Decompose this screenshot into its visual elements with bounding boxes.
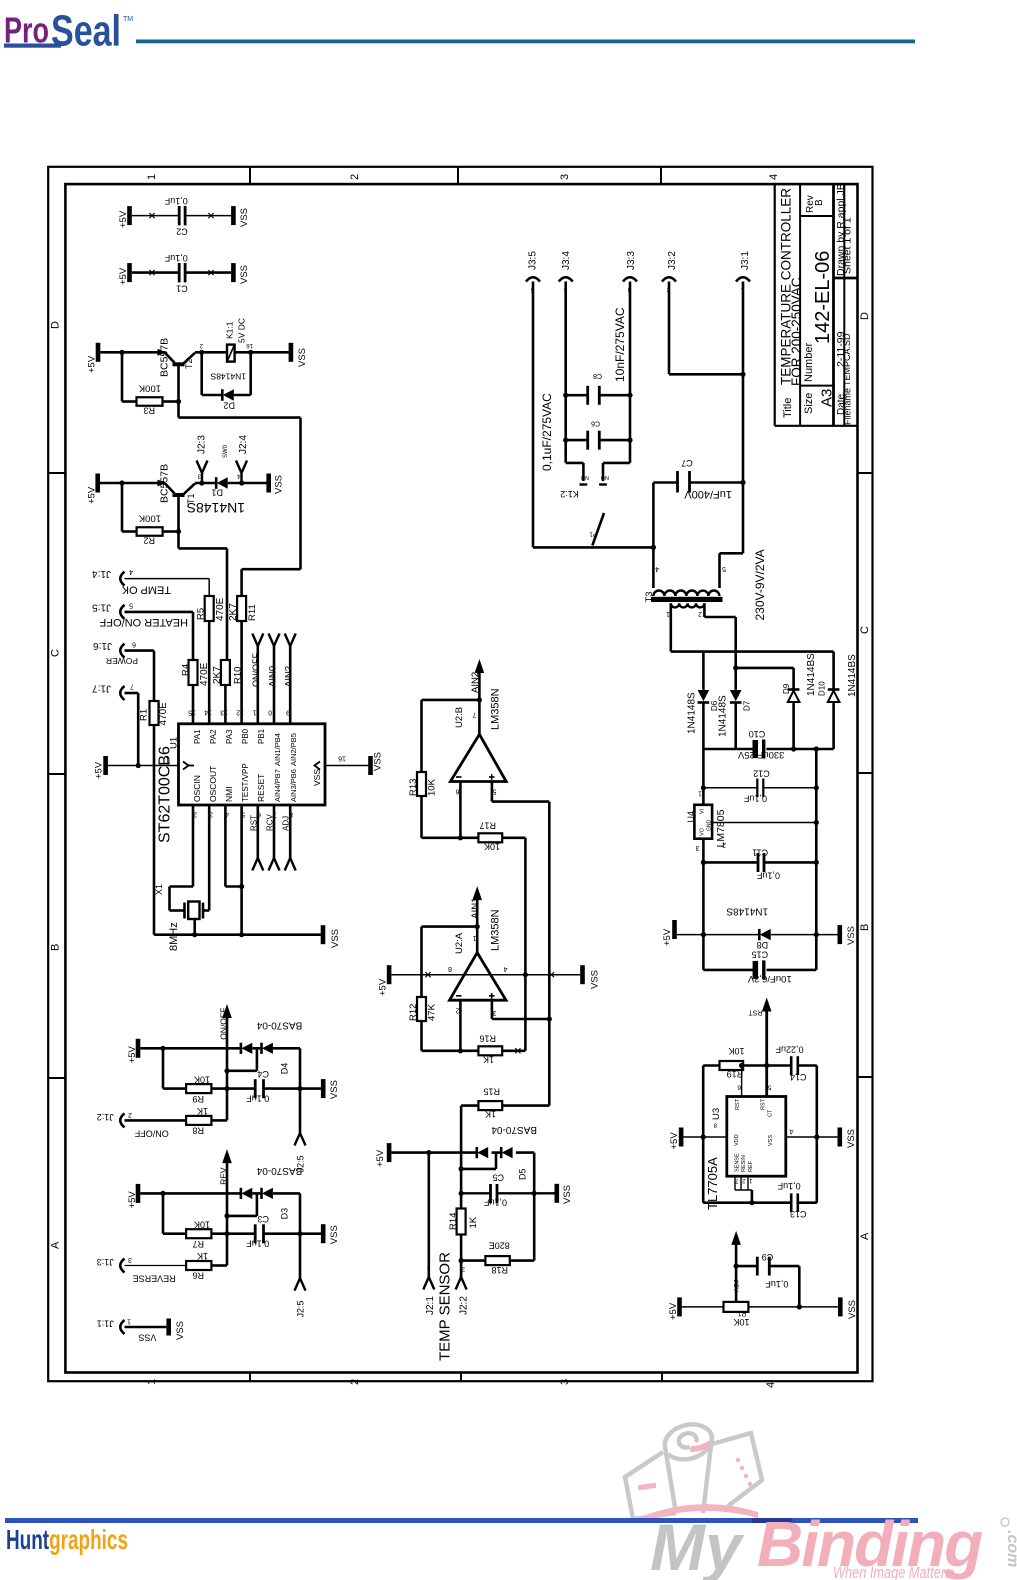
drawing frame outer border — [48, 167, 872, 1381]
wire C2 row — [132, 215, 231, 217]
svg-text:R8: R8 — [192, 1125, 204, 1135]
capacitor C6 10nF/275VAC — [588, 420, 600, 450]
svg-text:VSS: VSS — [329, 1080, 340, 1099]
svg-text:2: 2 — [128, 1111, 132, 1118]
svg-text:+5V: +5V — [87, 355, 98, 373]
wire inverting ground vertical — [524, 838, 527, 1051]
svg-text:HEATER ON/OFF: HEATER ON/OFF — [99, 616, 188, 628]
capacitor C8 0.1uF/275VAC — [588, 372, 602, 405]
wire secondary left to bridge — [669, 603, 672, 651]
net arrow ON/OFF — [219, 1004, 232, 1120]
svg-text:C4: C4 — [257, 1069, 269, 1079]
svg-text:7: 7 — [130, 683, 134, 690]
wire C1 row — [132, 271, 231, 274]
watermark MyBinding graphic — [625, 1424, 762, 1522]
wire U2:B inverting input pin 6 — [456, 782, 461, 838]
capacitor C3 0.1uF — [246, 1214, 270, 1249]
svg-text:1: 1 — [473, 934, 477, 941]
svg-text:PA1: PA1 — [193, 729, 202, 744]
svg-text:REF: REF — [748, 1160, 754, 1172]
ground VSS symbol at MCU rail — [321, 925, 341, 948]
svg-text:J1:2: J1:2 — [97, 1112, 114, 1122]
power +5V symbol ON/OFF block — [127, 1039, 140, 1064]
potentiometer P1 10K — [724, 1302, 750, 1327]
svg-text:10uF/6,3V: 10uF/6,3V — [747, 973, 791, 984]
diode D10 1N4148S — [818, 652, 859, 749]
wire VSS rail under MCU — [154, 933, 321, 936]
wire R12 to inverting node — [420, 1021, 423, 1051]
ground VSS symbol at T1 row — [266, 474, 284, 495]
svg-text:Size: Size — [803, 393, 815, 414]
capacitor C5 0.1uF — [483, 1173, 507, 1208]
zone letter D left — [50, 321, 62, 329]
svg-text:B: B — [859, 924, 871, 931]
svg-text:D: D — [859, 312, 871, 320]
title block Date label — [836, 393, 847, 415]
svg-text:RST: RST — [250, 815, 259, 831]
svg-text:820E: 820E — [489, 1241, 510, 1251]
connector J3:4 — [559, 251, 573, 396]
pin name NMI — [224, 786, 234, 802]
svg-text:J1:3: J1:3 — [97, 1257, 114, 1267]
svg-text:P1: P1 — [589, 531, 597, 538]
svg-text:VSS: VSS — [373, 752, 384, 771]
svg-text:470E: 470E — [158, 702, 169, 726]
resistor R17 10K — [478, 821, 502, 852]
svg-text:J3:4: J3:4 — [561, 251, 572, 270]
wire R8 to net — [211, 1119, 227, 1122]
wire pin 6 RST arrow — [250, 805, 264, 871]
svg-text:REVERSE: REVERSE — [133, 1274, 176, 1284]
net arrow REV — [219, 1149, 232, 1265]
resistor R16 1K — [478, 1034, 502, 1065]
svg-text:NO: NO — [600, 474, 609, 480]
wire pin 5 TEST/VPP to VSS rail — [239, 805, 244, 937]
resistor R19 10K — [720, 1046, 745, 1079]
svg-text:D1: D1 — [211, 488, 223, 498]
title block number value 142-EL-06 — [812, 251, 834, 344]
svg-text:BAS70-04: BAS70-04 — [491, 1124, 537, 1135]
resistor R3 100K — [137, 383, 163, 416]
title block Size label — [803, 393, 815, 414]
svg-text:4: 4 — [563, 286, 567, 292]
label SW0 — [223, 444, 229, 458]
label TEMP SENSOR — [437, 1252, 454, 1361]
capacitor C10 330uF/25V — [737, 729, 784, 760]
capacitor C12 0.1uF — [743, 769, 769, 804]
pin 16 VSS name inside — [312, 762, 322, 787]
wire D3 centre tap — [224, 1193, 257, 1218]
wire R13 to inverting node — [420, 796, 423, 838]
resistor R5 470E — [196, 596, 227, 621]
wire R19 to RST node — [743, 1063, 791, 1068]
svg-text:.com: .com — [1004, 1530, 1017, 1567]
svg-text:VSS: VSS — [846, 1129, 857, 1148]
title block title text line 1 — [779, 188, 794, 385]
wire U2:A output to AIN1 arrow — [470, 886, 482, 953]
diode pair D3 BAS70-04 — [241, 1165, 302, 1220]
svg-text:BC557B: BC557B — [159, 464, 171, 503]
svg-text:VSS: VSS — [329, 1225, 340, 1244]
connector J1:7 — [92, 683, 139, 701]
svg-text:AIN1/PB4: AIN1/PB4 — [273, 733, 282, 766]
svg-text:C5: C5 — [492, 1173, 504, 1183]
svg-text:1N4148S: 1N4148S — [687, 692, 698, 734]
diode D2 1N4148S flyback — [210, 372, 246, 411]
wire +5V branch to R9 — [163, 1048, 186, 1088]
ground VSS symbol at regulator — [838, 925, 858, 945]
svg-text:C13: C13 — [790, 1209, 807, 1219]
svg-text:AIN1: AIN1 — [470, 898, 481, 919]
svg-text:+5V: +5V — [94, 761, 105, 779]
ground VSS symbol for C2 — [231, 206, 250, 227]
connector J3:1 — [736, 251, 751, 483]
resistor R8 1K — [186, 1106, 211, 1135]
svg-text:4: 4 — [655, 565, 659, 572]
pin name PA1 — [193, 729, 202, 744]
svg-text:LM358N: LM358N — [490, 688, 502, 730]
wire U2:A feedback to R12 — [422, 927, 478, 997]
zone letter D right — [859, 312, 871, 320]
svg-text:FOR 200-250VAC: FOR 200-250VAC — [789, 277, 804, 386]
title block grid lines — [775, 184, 858, 426]
connector J1:2 ON/OFF — [97, 1111, 186, 1139]
zone number 3 top — [559, 174, 571, 180]
svg-text:C1: C1 — [176, 283, 188, 293]
wire clamp right branch to J2:5 — [295, 1193, 306, 1317]
svg-text:1N4148S: 1N4148S — [210, 372, 246, 382]
zone letter B left — [50, 944, 62, 951]
svg-text:AIN4/PB7: AIN4/PB7 — [273, 769, 282, 802]
watermark Binding text — [757, 1508, 1017, 1580]
svg-text:J1:6: J1:6 — [93, 640, 112, 651]
wire R7 row to cap and VSS — [211, 1231, 321, 1236]
svg-text:A: A — [50, 1241, 62, 1249]
capacitor C2 — [164, 196, 188, 236]
svg-text:K1:2: K1:2 — [560, 489, 579, 499]
svg-text:VSS: VSS — [330, 929, 341, 948]
wire R14 to J2:2 node — [459, 1235, 464, 1278]
wire U3 bottom pins to reference node — [735, 1176, 755, 1205]
svg-text:C6: C6 — [591, 420, 600, 427]
power +5V symbol at T1 — [87, 474, 101, 505]
svg-text:C15: C15 — [752, 950, 769, 960]
wire T1 collector row — [195, 480, 244, 485]
pin name PA3 — [225, 729, 234, 744]
wire J1:7 to VDD node — [136, 693, 141, 768]
svg-text:BC557B: BC557B — [159, 338, 171, 377]
pin end tick R16 row — [515, 1048, 520, 1053]
svg-text:SW0: SW0 — [223, 444, 229, 458]
wire secondary right to bridge — [704, 603, 735, 668]
wire U2:A inverting input pin 2 — [456, 1000, 461, 1051]
op-amp U2:B LM358N — [450, 688, 506, 781]
wire pin 2 OSCIN to resonator — [170, 805, 194, 911]
wire U2:B non-inverting input pin 5 — [492, 782, 549, 802]
svg-text:6: 6 — [456, 788, 460, 795]
wire C9 row — [736, 1266, 799, 1307]
capacitor C4 0.1uF — [246, 1069, 270, 1104]
wire D4 centre tap — [224, 1048, 257, 1073]
svg-text:J2:5: J2:5 — [296, 1300, 306, 1317]
capacitor C15 10uF/6.3V — [747, 950, 791, 984]
svg-text:PB0: PB0 — [241, 728, 250, 744]
resistor R14 1K — [448, 1209, 479, 1235]
svg-text:D5: D5 — [518, 1168, 528, 1180]
wire transformer primary feed — [653, 483, 743, 589]
pin name PA2 — [209, 729, 218, 744]
title block Filename label — [843, 388, 853, 425]
wire VSS rail right — [815, 749, 818, 970]
svg-text:BAS70-04: BAS70-04 — [256, 1165, 302, 1176]
svg-text:6: 6 — [132, 640, 136, 647]
svg-text:R10: R10 — [233, 667, 244, 684]
svg-text:1: 1 — [127, 1318, 131, 1325]
wire C5 row — [461, 1192, 554, 1194]
svg-text:+5V: +5V — [127, 1045, 138, 1063]
svg-text:47K: 47K — [427, 1003, 438, 1021]
pin name TEST/VPP — [241, 763, 250, 802]
svg-text:J1:7: J1:7 — [92, 683, 111, 694]
title block date value — [835, 331, 847, 367]
wire J1:6 to R1 — [153, 651, 156, 701]
svg-text:ON/OFF: ON/OFF — [251, 653, 261, 687]
svg-text:470E: 470E — [199, 662, 210, 686]
ground VSS symbol at U3 — [838, 1128, 858, 1149]
wire relay to VSS — [235, 351, 289, 354]
wire non-inverting signal vertical — [547, 802, 552, 1106]
svg-text:3: 3 — [493, 1009, 497, 1016]
diode D9 1N4148S — [782, 653, 817, 752]
pin end ticks op-amp supply row — [425, 972, 554, 977]
power +5V symbol at T2 — [87, 343, 101, 373]
connector J2:4 — [236, 435, 249, 483]
title block size value A3 — [819, 389, 836, 407]
svg-text:U2:B: U2:B — [454, 707, 465, 728]
wire R2 to T1 base — [163, 529, 181, 534]
svg-text:16: 16 — [246, 342, 253, 348]
connector J1:6 POWER — [93, 640, 154, 666]
svg-text:ON/OFF: ON/OFF — [219, 1008, 229, 1040]
svg-text:NO: NO — [580, 474, 589, 480]
svg-text:C12: C12 — [753, 769, 770, 779]
svg-text:1K: 1K — [485, 1109, 496, 1119]
wire U2:A non-inverting input pin 3 — [492, 1000, 549, 1019]
IC U1 ST62T00CB6 body — [157, 724, 326, 843]
power +5V symbol at VDD pin 1 — [94, 756, 108, 779]
wire R3 to T2 base — [163, 399, 182, 404]
svg-text:R4: R4 — [180, 664, 191, 676]
zone letter B right — [859, 924, 871, 931]
svg-text:CT: CT — [768, 1109, 774, 1117]
svg-text:J3:5: J3:5 — [528, 251, 539, 270]
wire bridge bottom rail — [703, 746, 833, 751]
wire flyback loop left — [199, 350, 222, 395]
svg-text:J3:2: J3:2 — [667, 251, 678, 270]
relay contact K1:2 with P1 — [560, 440, 630, 545]
svg-text:J2:1: J2:1 — [425, 1296, 436, 1315]
wire flyback loop right — [234, 350, 253, 395]
svg-text:C9: C9 — [762, 1252, 774, 1262]
svg-text:Seal: Seal — [51, 7, 121, 56]
watermark tagline — [833, 1563, 955, 1580]
svg-text:1: 1 — [740, 286, 744, 292]
resistor R10 2K7 — [212, 660, 244, 685]
ground VSS symbol at P1 — [838, 1297, 858, 1319]
wire R3 branch down — [119, 350, 136, 402]
title block Sheet 1 of 1 — [842, 217, 854, 274]
svg-text:R5: R5 — [196, 608, 207, 620]
svg-text:R15: R15 — [483, 1087, 500, 1097]
svg-text:TM: TM — [123, 16, 133, 23]
connector J2:2 — [456, 1265, 470, 1315]
wire R11 to pin 12 — [240, 621, 243, 724]
zone letter A right — [859, 1232, 871, 1240]
title block Number label — [803, 343, 815, 382]
svg-text:0,1uF: 0,1uF — [756, 870, 780, 880]
ground VSS symbol at pin 16 — [368, 752, 383, 775]
svg-text:470E: 470E — [215, 597, 226, 621]
wire pin 8 ADJ arrow — [282, 805, 296, 871]
wire +5V rail to T2 emitter — [100, 351, 165, 354]
svg-text:16: 16 — [338, 755, 346, 762]
zone number 4 bottom — [765, 1382, 777, 1388]
wire sensor node vertical — [459, 1106, 464, 1209]
ground VSS symbol REVERSE block — [321, 1224, 340, 1244]
svg-text:R12: R12 — [408, 1004, 419, 1021]
svg-text:4: 4 — [237, 473, 241, 479]
svg-text:AIN0: AIN0 — [268, 666, 279, 687]
wire +5V sensor row — [391, 1150, 534, 1155]
wire R16 row — [422, 1048, 526, 1053]
resistor R7 10K — [186, 1220, 211, 1249]
wire DC+ rail to U4 — [701, 749, 706, 805]
svg-text:ADJ: ADJ — [734, 1280, 741, 1292]
svg-text:C14: C14 — [790, 1072, 807, 1082]
svg-text:TEMP OK: TEMP OK — [121, 584, 171, 596]
svg-text:RESET: RESET — [256, 774, 266, 802]
wire pin 11 ON/OFF arrow — [251, 634, 263, 725]
svg-text:4: 4 — [790, 1128, 794, 1135]
wire bridge top rail — [671, 650, 834, 653]
svg-text:D2: D2 — [223, 401, 235, 411]
wire T1 base net to R10 — [179, 532, 228, 661]
svg-text:ADJ: ADJ — [282, 816, 291, 831]
svg-text:4: 4 — [768, 174, 780, 180]
zone number 2 top — [349, 174, 361, 180]
resistor R13 10K — [408, 772, 438, 796]
svg-text:1uF/400V: 1uF/400V — [684, 488, 732, 500]
svg-text:3: 3 — [559, 1379, 571, 1385]
wire C13 row — [703, 1201, 817, 1204]
title block Title label — [782, 398, 794, 418]
wire U3 pin 6 stub — [739, 1063, 744, 1097]
svg-text:U4: U4 — [686, 811, 696, 823]
svg-text:J3:3: J3:3 — [626, 251, 637, 270]
svg-text:4: 4 — [504, 965, 508, 972]
svg-text:142-EL-06: 142-EL-06 — [812, 251, 834, 344]
zone number 1 top — [146, 174, 158, 180]
svg-text:+5V: +5V — [118, 210, 129, 228]
ceramic resonator X1 8MHz — [154, 884, 203, 951]
svg-text:D10: D10 — [818, 681, 827, 696]
wire C14 to VSS branch — [798, 1066, 820, 1203]
resistor R11 2K7 — [228, 596, 258, 621]
svg-text:100K: 100K — [138, 383, 161, 394]
svg-text:5: 5 — [493, 788, 497, 795]
svg-text:VSS: VSS — [846, 926, 857, 945]
wire mains cap row 2 — [563, 395, 633, 443]
svg-text:VSS: VSS — [847, 1300, 858, 1319]
wire R9 row to cap and VSS — [211, 1086, 321, 1091]
pin name OSCIN — [192, 775, 202, 802]
wire AC2 tie — [733, 665, 793, 670]
svg-text:C11: C11 — [752, 848, 768, 858]
diode D8 1N4148S protection — [726, 906, 771, 950]
pin name RESET — [256, 774, 266, 802]
header rule — [136, 40, 915, 44]
svg-text:D: D — [50, 321, 62, 329]
svg-text:0,1uF: 0,1uF — [246, 1239, 270, 1249]
zone number 1 bottom — [146, 1379, 158, 1385]
label 10nF/275VAC — [613, 307, 627, 382]
svg-text:C: C — [859, 626, 871, 634]
pin 16 VSS wire — [325, 755, 368, 766]
capacitor C11 0.1uF — [752, 848, 780, 881]
wire D5 centre tap — [461, 1153, 496, 1169]
capacitor C7 1uF/400V — [678, 458, 733, 500]
svg-text:AIN2/PB5: AIN2/PB5 — [289, 733, 298, 766]
wire D5 right to VSS branch — [532, 1153, 537, 1261]
svg-text:J2:2: J2:2 — [459, 1296, 470, 1315]
title block rev value B — [814, 199, 825, 206]
svg-text:B: B — [814, 199, 825, 206]
pin numbers bottom row — [193, 811, 293, 818]
svg-text:VSS: VSS — [239, 265, 250, 284]
svg-text:D9: D9 — [782, 683, 791, 694]
svg-text:1: 1 — [146, 1379, 158, 1385]
wire C11 row — [703, 860, 819, 865]
svg-text:P1: P1 — [738, 1309, 747, 1316]
svg-text:10K: 10K — [194, 1075, 210, 1085]
power +5V symbol REVERSE block — [127, 1184, 140, 1209]
zone ticks right border — [858, 473, 873, 1077]
watermark My text — [650, 1510, 745, 1580]
diode D1 1N4148S — [211, 477, 227, 497]
svg-text:6: 6 — [737, 1084, 741, 1091]
svg-text:REV: REV — [219, 1167, 229, 1185]
logo ProSeal — [4, 7, 133, 56]
svg-text:VSS: VSS — [138, 1332, 156, 1342]
svg-text:J1:5: J1:5 — [92, 601, 111, 612]
svg-text:0,1uF: 0,1uF — [743, 793, 767, 803]
svg-text:1K: 1K — [468, 1216, 479, 1228]
wire R18 row — [461, 1259, 534, 1262]
svg-text:J3:1: J3:1 — [740, 251, 751, 270]
ground VSS symbol ON/OFF block — [321, 1079, 340, 1099]
svg-text:1K: 1K — [483, 1054, 494, 1064]
wire +5V rail below U4 — [701, 839, 706, 970]
svg-text:J1:4: J1:4 — [92, 568, 111, 579]
wire mains cap row 1 — [563, 393, 633, 398]
zone number 4 top — [768, 174, 780, 180]
svg-text:2: 2 — [698, 610, 702, 617]
connector J3:3 — [623, 251, 637, 396]
svg-text:C8: C8 — [593, 372, 602, 379]
svg-text:330uF/25V: 330uF/25V — [737, 749, 784, 760]
pin name AIN3/PB6 — [289, 769, 298, 802]
svg-text:R13: R13 — [408, 779, 419, 796]
